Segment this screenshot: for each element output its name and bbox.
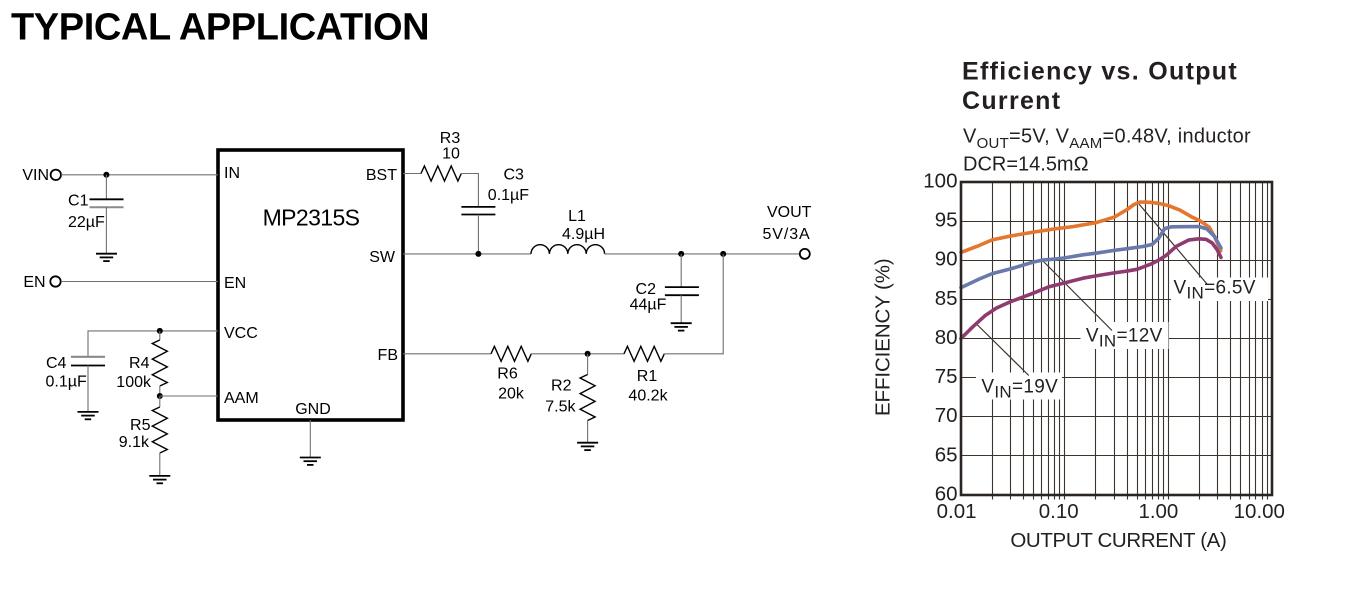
resistor R4: [116, 331, 167, 396]
wire C3 bottom lead: [477, 215, 479, 254]
svg-text:5V/3A: 5V/3A: [763, 226, 811, 243]
label VIN=6.5V: [1174, 277, 1256, 302]
junction SW/C3: [475, 251, 481, 257]
svg-text:100k: 100k: [116, 374, 152, 391]
callout line VIN=19V: [977, 325, 1029, 376]
svg-text:EN: EN: [23, 274, 45, 291]
svg-text:TYPICAL APPLICATION: TYPICAL APPLICATION: [11, 7, 429, 49]
label VIN=12V: [1086, 326, 1163, 351]
svg-text:R5: R5: [130, 417, 151, 434]
svg-text:FB: FB: [378, 347, 398, 364]
junction VCC/R4: [157, 328, 163, 334]
svg-text:R2: R2: [551, 378, 572, 395]
capacitor C1: [68, 193, 124, 232]
resistor R1: [624, 346, 669, 404]
svg-text:BST: BST: [366, 167, 397, 184]
svg-text:4.9µH: 4.9µH: [562, 226, 605, 243]
svg-text:85: 85: [935, 287, 958, 310]
svg-text:R3: R3: [440, 130, 461, 147]
svg-text:44µF: 44µF: [630, 297, 667, 314]
svg-text:10: 10: [442, 146, 460, 163]
wire C2 bottom lead: [680, 295, 682, 323]
inductor L1: [531, 208, 605, 254]
wire C2 top lead: [680, 254, 682, 287]
svg-text:MP2315S: MP2315S: [263, 205, 360, 231]
svg-text:DCR=14.5mΩ: DCR=14.5mΩ: [963, 154, 1089, 176]
pin EN label: [224, 275, 246, 292]
wire FB to R6: [403, 353, 491, 355]
svg-text:10.00: 10.00: [1234, 500, 1285, 523]
wire VIN to IN: [61, 174, 218, 176]
resistor R2: [545, 354, 595, 443]
svg-text:Current: Current: [962, 87, 1061, 115]
svg-text:20k: 20k: [498, 385, 525, 402]
chart subtitle: [963, 125, 1251, 175]
x axis title: [1010, 529, 1226, 552]
svg-text:VOUT=5V, VAAM=0.48V, inductor: VOUT=5V, VAAM=0.48V, inductor: [963, 125, 1251, 152]
svg-text:C2: C2: [636, 281, 657, 298]
wire C1 bottom lead: [105, 207, 107, 254]
curve VIN=6.5V orange: [961, 202, 1221, 252]
ground C4: [78, 412, 99, 419]
pin SW label: [369, 249, 396, 266]
svg-text:VOUT: VOUT: [767, 204, 812, 221]
wire GND pin stub: [309, 420, 311, 458]
svg-text:22µF: 22µF: [68, 214, 105, 231]
svg-text:Efficiency vs. Output: Efficiency vs. Output: [962, 58, 1238, 86]
wire C1 top lead: [105, 175, 107, 200]
wire R1 to VOUT junction: [664, 254, 723, 354]
label box VIN=6.5V: [1171, 278, 1268, 302]
wire R6 to R1: [531, 353, 624, 355]
svg-text:R1: R1: [637, 368, 658, 385]
node EN terminal: [23, 274, 60, 291]
ground R5: [149, 476, 170, 483]
chart grid: [961, 182, 1272, 500]
wire L1 to VOUT: [605, 253, 800, 255]
pin VCC label: [224, 325, 258, 342]
svg-text:40.2k: 40.2k: [628, 387, 668, 404]
pin BST label: [366, 167, 397, 184]
svg-text:0.1µF: 0.1µF: [488, 187, 529, 204]
wire SW to L1: [403, 253, 531, 255]
y axis tick labels: [923, 169, 957, 505]
svg-text:C4: C4: [46, 355, 67, 372]
svg-text:C3: C3: [504, 167, 525, 184]
capacitor C4: [46, 355, 106, 391]
svg-text:1.00: 1.00: [1138, 500, 1178, 523]
resistor R6: [491, 346, 531, 402]
pin IN label: [224, 165, 240, 182]
resistor R5: [119, 396, 168, 476]
y axis title: [872, 258, 895, 416]
svg-text:9.1k: 9.1k: [119, 434, 150, 451]
callout line VIN=6.5V: [1139, 204, 1207, 284]
svg-text:EFFICIENCY (%): EFFICIENCY (%): [872, 258, 895, 416]
ground C2: [671, 323, 692, 330]
junction R2 tap: [585, 351, 591, 357]
capacitor C2: [630, 281, 699, 314]
svg-text:90: 90: [935, 248, 958, 271]
label box VIN=12V: [1081, 322, 1169, 349]
svg-text:C1: C1: [68, 193, 89, 210]
wire VCC net: [88, 331, 218, 358]
pin GND label: [295, 401, 331, 418]
page title: [11, 7, 429, 49]
svg-text:R6: R6: [497, 366, 518, 383]
curve VIN=12V blue: [961, 227, 1221, 288]
svg-text:IN: IN: [224, 165, 240, 182]
svg-text:7.5k: 7.5k: [545, 399, 576, 416]
svg-text:L1: L1: [568, 208, 586, 225]
svg-text:0.10: 0.10: [1039, 500, 1079, 523]
chart border: [961, 182, 1272, 495]
IC U1 MP2315S body: [218, 150, 403, 420]
ground R2: [577, 443, 598, 450]
svg-text:GND: GND: [295, 401, 331, 418]
label box VIN=19V: [976, 373, 1062, 400]
pin FB label: [378, 347, 398, 364]
capacitor C3: [461, 167, 529, 215]
ground GND pin: [300, 458, 321, 465]
junction VIN/C1: [103, 172, 109, 178]
svg-text:VCC: VCC: [224, 325, 258, 342]
label VIN=19V: [981, 377, 1058, 402]
svg-text:R4: R4: [129, 355, 150, 372]
x axis tick labels: [937, 500, 1285, 523]
chart title: [962, 58, 1238, 116]
wire BST lead: [403, 173, 421, 175]
svg-text:EN: EN: [224, 275, 246, 292]
svg-text:AAM: AAM: [224, 390, 259, 407]
wire C4 bottom lead: [87, 366, 89, 412]
callout line VIN=12V: [1043, 261, 1113, 331]
junction AAM/R4/R5: [157, 393, 163, 399]
node VIN terminal: [22, 167, 61, 184]
svg-text:95: 95: [935, 209, 958, 232]
pin AAM label: [224, 390, 259, 407]
svg-text:0.1µF: 0.1µF: [46, 374, 87, 391]
svg-text:70: 70: [935, 404, 958, 427]
resistor R3: [421, 130, 461, 181]
curve VIN=19V purple: [961, 239, 1221, 339]
svg-text:0.01: 0.01: [937, 500, 977, 523]
svg-text:OUTPUT CURRENT (A): OUTPUT CURRENT (A): [1010, 529, 1226, 552]
wire AAM: [160, 395, 218, 397]
svg-text:SW: SW: [369, 249, 396, 266]
svg-text:100: 100: [923, 169, 957, 192]
svg-text:65: 65: [935, 443, 958, 466]
junction C2: [678, 251, 684, 257]
svg-text:80: 80: [935, 326, 958, 349]
wire EN to pin: [61, 281, 218, 283]
wire R3 to C3: [462, 174, 479, 207]
svg-text:VIN: VIN: [22, 167, 49, 184]
node VOUT terminal: [763, 204, 812, 259]
svg-text:75: 75: [935, 365, 958, 388]
ground C1: [96, 254, 117, 261]
junction feedback: [720, 251, 726, 257]
